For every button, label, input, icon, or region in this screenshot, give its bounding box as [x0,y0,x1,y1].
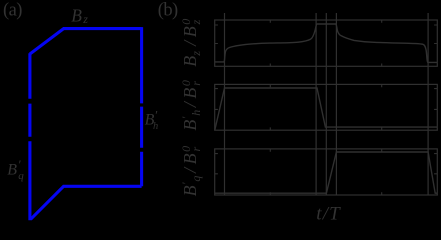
subplot2 frame [215,84,438,130]
svg-text:B: B [180,185,200,196]
svg-text:r: r [189,81,203,86]
y label subplot3: B'q/Br0 [179,146,203,197]
svg-text:r: r [189,147,203,152]
event line t1 [224,13,226,195]
event line m3 [335,13,337,195]
svg-text:B: B [180,120,200,131]
svg-text:z: z [189,19,203,25]
event line t2 [427,13,429,195]
svg-text:B: B [180,26,200,37]
svg-text:h: h [189,110,203,116]
blue trajectory: top-left diagonal [30,29,64,54]
subplot2 curve B'h(t) [215,88,437,130]
subplot1 curve Bz(t) [215,24,438,62]
svg-text:Bz: Bz [71,5,88,26]
subplot2 ticks [215,84,438,130]
y label subplot2: B'h/Br0 [179,80,203,131]
blue trajectory: right vertical (dashed) [140,27,143,186]
svg-text:/: / [180,100,200,108]
svg-text:B: B [180,88,200,99]
svg-text:(b): (b) [158,0,178,20]
svg-text:B′h: B′h [145,107,159,132]
svg-text:B: B [180,56,200,67]
svg-text:z: z [189,51,203,57]
svg-text:q: q [189,176,203,182]
subplot3 curve B'q(t) [215,152,438,193]
blue trajectory: top edge Bz [63,27,142,30]
svg-text:B: B [180,153,200,164]
blue trajectory: left vertical (dashed) [28,53,31,220]
svg-text:t/T: t/T [316,204,341,225]
subplot3 ticks [215,149,438,195]
blue trajectory: bottom edge [31,186,142,219]
svg-text:/: / [180,166,200,174]
event line m2 [325,13,327,195]
svg-text:B′q: B′q [7,157,24,182]
subplot1 frame [215,20,438,66]
event line m1 [315,13,317,195]
svg-text:/: / [180,39,200,47]
svg-text:(a): (a) [3,0,22,20]
subplot3 frame [215,149,438,195]
y label subplot1: Bz/Bz0 [179,19,203,67]
subplot1 ticks [215,20,438,66]
